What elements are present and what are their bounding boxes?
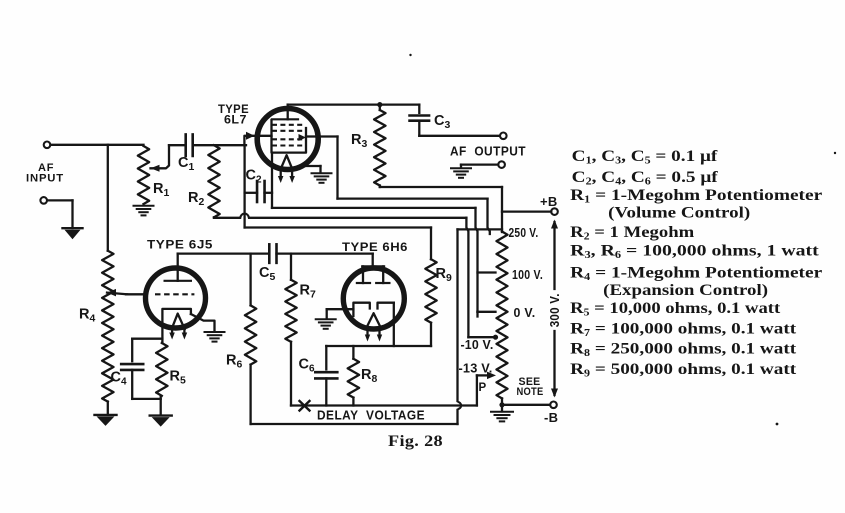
wire cathode bus y346 [326, 345, 431, 347]
label DELAY VOLTAGE [317, 407, 425, 422]
svg-text:R3, R6 = 100,000 ohms, 1 watt: R3, R6 = 100,000 ohms, 1 watt [570, 243, 819, 262]
svg-text:-10 V.: -10 V. [461, 337, 494, 352]
svg-text:TYPE 6J5: TYPE 6J5 [147, 237, 213, 251]
X mark delay point [300, 401, 310, 411]
wire -10V tap [468, 335, 498, 340]
wire C4/R5 bottom [132, 396, 161, 415]
R1 wiper arrow [151, 145, 170, 172]
6H6 cathode gnd wire [327, 309, 354, 319]
svg-text:TYPE 6H6: TYPE 6H6 [342, 240, 408, 254]
label TYPE 6L7 [218, 102, 249, 127]
capacitor C3 [410, 105, 430, 136]
resistor R2 [208, 145, 219, 217]
parts list: R1 volume control note [608, 205, 750, 222]
300V dimension arrow [551, 220, 558, 398]
wire C3 to output terminal [419, 135, 500, 137]
wire C2 right lead [265, 192, 273, 194]
svg-text:+B: +B [540, 194, 558, 209]
6L7 plate bar [272, 118, 298, 120]
svg-text:R5: R5 [170, 369, 186, 387]
svg-text:R2 = 1 Megohm: R2 = 1 Megohm [570, 224, 695, 243]
6H6 plate bar [362, 265, 384, 267]
label -13 V. [459, 360, 493, 375]
label R3 [351, 132, 367, 150]
svg-text:C2, C4, C6 = 0.5 μf: C2, C4, C6 = 0.5 μf [572, 169, 719, 188]
wire 250V line [458, 228, 503, 230]
label C1 [178, 155, 194, 173]
terminal +B [551, 208, 558, 215]
wire C2 left lead [245, 192, 257, 194]
wire input to R1 top [51, 144, 144, 146]
parts list: R8 value [570, 341, 797, 360]
svg-text:R7 = 100,000 ohms, 0.1 watt: R7 = 100,000 ohms, 0.1 watt [570, 320, 797, 339]
R4 ground lead [107, 402, 109, 415]
svg-text:C: C [299, 357, 310, 373]
wire +B tap [502, 210, 551, 212]
wire bus C (R2 bottom to -10V) [214, 214, 468, 338]
ground right of 6J5 [205, 332, 225, 342]
label R7 [300, 283, 316, 301]
capacitor C2 [257, 181, 265, 202]
ground (chassis) below input [63, 228, 83, 239]
label P [479, 382, 487, 394]
svg-text:R2: R2 [188, 190, 204, 208]
parts list: R5 value [570, 300, 781, 319]
label R5 [170, 369, 186, 387]
parts list: R4 expansion control note [603, 282, 768, 299]
wire long vertical 250V [458, 229, 462, 424]
6H6 cathode right lead [393, 303, 395, 346]
wire 100V tap [478, 271, 496, 273]
svg-text:P: P [479, 382, 487, 394]
svg-text:C: C [246, 168, 257, 184]
svg-text:4: 4 [121, 377, 127, 388]
wire to R4 top [0, 0, 1, 1]
wire divider bottom [499, 398, 550, 411]
wire C1 to grid junction [193, 144, 246, 146]
tube 6L7 envelope [257, 109, 318, 170]
label R6 [226, 353, 242, 371]
node junction to R4 [107, 145, 109, 251]
label R9 [436, 266, 452, 284]
parts list: R1 value [570, 187, 822, 206]
svg-text:R5 = 10,000 ohms, 0.1 watt: R5 = 10,000 ohms, 0.1 watt [570, 300, 781, 319]
resistor R9 [425, 259, 436, 346]
svg-text:NOTE: NOTE [517, 386, 544, 398]
6H6 heater leads [365, 327, 382, 342]
wire 6J5 plate bus [178, 252, 373, 254]
svg-text:C3: C3 [434, 113, 450, 131]
svg-text:R4: R4 [79, 307, 95, 325]
svg-text:250 V.: 250 V. [509, 225, 539, 240]
label C2 [246, 168, 263, 186]
svg-text:2: 2 [256, 175, 262, 186]
6L7 electrode box [272, 120, 307, 153]
svg-text:0 V.: 0 V. [514, 305, 536, 320]
label AF OUTPUT [450, 143, 526, 158]
6H6 cathode right [378, 303, 394, 309]
tube 6J5 envelope [146, 268, 206, 328]
scan speck [409, 54, 836, 426]
arrow into R4 (wiper) [107, 289, 127, 297]
label C5 [259, 265, 275, 283]
wire bottom 250V return [251, 423, 458, 425]
6H6 plate right [376, 266, 389, 283]
parts list: R7 value [570, 320, 797, 339]
parts list: R9 value [570, 361, 797, 380]
label R1 [153, 181, 169, 199]
6J5 cathode to ground [191, 314, 215, 332]
svg-text:DELAY VOLTAGE: DELAY VOLTAGE [317, 407, 425, 422]
wire grid node vertical [243, 145, 245, 227]
parts list: R4 value [570, 265, 822, 284]
wire bus D (grid to R9) [245, 228, 431, 260]
svg-text:Fig. 28: Fig. 28 [388, 433, 443, 450]
output terminal hot [500, 133, 507, 140]
6H6 plate lead [372, 254, 374, 267]
6L7 grids (dashed) [272, 125, 304, 146]
input terminal (AF input gnd) [40, 197, 47, 204]
6L7 heater lead right [289, 169, 295, 183]
svg-text:(Volume Control): (Volume Control) [608, 205, 750, 222]
wire -13V riser [477, 372, 496, 406]
label R2 [188, 190, 204, 208]
label +B [540, 194, 558, 209]
wire delay voltage line [291, 404, 477, 406]
svg-text:(Expansion Control): (Expansion Control) [603, 282, 768, 299]
svg-text:C: C [111, 370, 122, 386]
capacitor C6 [315, 346, 337, 406]
wire lower terminal to ground [47, 200, 72, 228]
ground below R5 [150, 416, 172, 427]
junction dot R3 top [377, 102, 382, 107]
parts list: R2 value [570, 224, 695, 243]
svg-text:C5: C5 [259, 265, 275, 283]
ground right of 6L7 [312, 173, 332, 183]
caption Fig. 28 [388, 433, 443, 450]
svg-text:C1, C3, C5 = 0.1 μf: C1, C3, C5 = 0.1 μf [572, 148, 718, 167]
svg-text:R9 = 500,000 ohms, 0.1 watt: R9 = 500,000 ohms, 0.1 watt [570, 361, 797, 380]
label 0 V. [514, 305, 536, 320]
svg-text:INPUT: INPUT [26, 173, 64, 185]
6J5 grid (dashed) [155, 293, 194, 295]
terminal -B [550, 402, 557, 409]
label AF INPUT [26, 162, 64, 185]
wire 0V tap [478, 312, 496, 317]
label -B [544, 410, 558, 425]
output terminal gnd [498, 161, 505, 168]
6L7 heater lead left [278, 169, 284, 183]
resistor voltage divider [497, 232, 508, 399]
wire bus B (screen to 100V) [272, 153, 478, 312]
wire wiper to C1 [169, 144, 186, 146]
capacitor C4 [121, 339, 143, 399]
6J5 cathode [162, 309, 191, 343]
label TYPE 6H6 [342, 240, 408, 254]
label C4 [111, 370, 128, 388]
6J5 heater leads [169, 329, 187, 340]
6H6 plate left [357, 266, 370, 283]
6L7 inner arrow [299, 134, 307, 141]
wire bus A (6L7 right to 250V) [306, 137, 490, 235]
6H6 cathode left [353, 303, 369, 316]
parts list: C1 C3 C5 value [572, 148, 718, 167]
ground left of 6H6 [316, 319, 336, 329]
6L7 plate lead [287, 105, 289, 120]
svg-text:R9: R9 [436, 266, 452, 284]
wire output gnd [461, 165, 498, 168]
label 300 V. (rotated) [547, 293, 562, 327]
ground below AF output [451, 168, 471, 178]
capacitor C5 [269, 244, 276, 263]
label SEE NOTE [517, 376, 544, 398]
6J5 heater [172, 314, 185, 329]
svg-text:6: 6 [309, 364, 315, 375]
6L7 cathode ground wire [304, 166, 321, 173]
label TYPE 6J5 [147, 237, 213, 251]
label 100 V. [512, 267, 543, 282]
svg-text:6L7: 6L7 [224, 113, 247, 127]
wire 6L7 plate to C3 [288, 103, 420, 105]
label -10 V. [461, 337, 494, 352]
label C3 [434, 113, 450, 131]
wire C4 junction [132, 338, 162, 340]
svg-text:300 V.: 300 V. [547, 293, 562, 327]
resistor R1 (volume pot) [138, 146, 149, 204]
label R8 [361, 367, 377, 385]
label R4 [79, 307, 95, 325]
ground below R1 [134, 206, 154, 216]
parts list: C2 C4 C6 value [572, 169, 719, 188]
6J5 grid lead [126, 293, 146, 295]
6H6 heater [367, 313, 381, 327]
ground below R4 [95, 415, 117, 426]
wire R3 bottom [380, 186, 502, 188]
svg-text:R8 = 250,000 ohms, 0.1 watt: R8 = 250,000 ohms, 0.1 watt [570, 341, 797, 360]
tube 6H6 envelope [343, 268, 404, 329]
6J5 plate bar [165, 280, 191, 282]
resistor R5 [156, 343, 167, 396]
resistor R7 [285, 254, 296, 406]
arrow into 6L7 grid [244, 132, 271, 145]
resistor R8 [348, 346, 359, 406]
svg-text:-B: -B [544, 410, 558, 425]
svg-text:-13 V.: -13 V. [459, 360, 493, 375]
svg-text:R7: R7 [300, 283, 316, 301]
wire +B riser [501, 187, 503, 232]
6J5 plate lead [177, 254, 179, 281]
input terminal (AF input hot) [44, 142, 51, 149]
resistor R4 (expansion pot) [102, 251, 113, 402]
svg-text:R8: R8 [361, 367, 377, 385]
svg-text:R1 = 1-Megohm Potentiometer: R1 = 1-Megohm Potentiometer [570, 187, 822, 206]
ground below divider [491, 412, 513, 422]
resistor R6 [245, 254, 256, 424]
svg-text:R4 = 1-Megohm Potentiometer: R4 = 1-Megohm Potentiometer [570, 265, 822, 284]
6L7 heater [281, 155, 293, 169]
label 250 V. [509, 225, 539, 240]
svg-text:R3: R3 [351, 132, 367, 150]
capacitor C1 [186, 134, 193, 156]
resistor R3 [374, 105, 385, 186]
label C6 [299, 357, 316, 375]
svg-text:R6: R6 [226, 353, 242, 371]
svg-text:AF OUTPUT: AF OUTPUT [450, 143, 526, 158]
parts list: R3 R6 value [570, 243, 819, 262]
svg-text:100 V.: 100 V. [512, 267, 543, 282]
svg-text:R1: R1 [153, 181, 169, 199]
svg-text:C1: C1 [178, 155, 194, 173]
